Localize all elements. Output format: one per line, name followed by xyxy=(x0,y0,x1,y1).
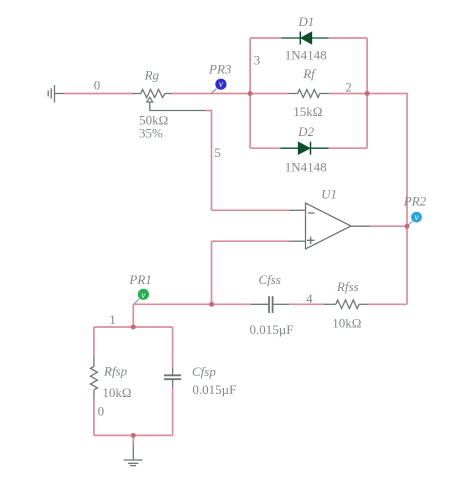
svg-text:10kΩ: 10kΩ xyxy=(332,315,361,330)
svg-text:U1: U1 xyxy=(321,187,337,202)
svg-text:4: 4 xyxy=(306,291,313,306)
svg-text:v: v xyxy=(415,212,419,222)
svg-text:PR1: PR1 xyxy=(128,272,151,287)
svg-text:Cfsp: Cfsp xyxy=(192,364,216,379)
svg-text:v: v xyxy=(141,290,145,300)
svg-text:1N4148: 1N4148 xyxy=(285,160,327,175)
svg-text:35%: 35% xyxy=(139,126,163,141)
svg-text:Rfss: Rfss xyxy=(336,279,359,294)
svg-text:15kΩ: 15kΩ xyxy=(293,104,322,119)
svg-text:1: 1 xyxy=(109,312,116,327)
svg-text:v: v xyxy=(219,79,223,89)
svg-text:PR3: PR3 xyxy=(208,61,232,76)
svg-text:10kΩ: 10kΩ xyxy=(102,385,131,400)
svg-text:Rfsp: Rfsp xyxy=(103,364,128,379)
svg-text:0: 0 xyxy=(98,404,105,419)
svg-text:Cfss: Cfss xyxy=(259,272,281,287)
svg-text:0: 0 xyxy=(94,77,101,92)
svg-text:1N4148: 1N4148 xyxy=(285,48,327,63)
svg-text:Rg: Rg xyxy=(144,68,160,83)
svg-text:D2: D2 xyxy=(297,124,314,139)
svg-text:3: 3 xyxy=(254,53,260,68)
svg-text:2: 2 xyxy=(345,80,352,95)
svg-text:PR2: PR2 xyxy=(403,194,427,209)
svg-text:5: 5 xyxy=(214,145,221,160)
svg-text:0.015µF: 0.015µF xyxy=(250,322,294,337)
svg-text:0.015µF: 0.015µF xyxy=(192,382,236,397)
svg-text:D1: D1 xyxy=(297,14,314,29)
